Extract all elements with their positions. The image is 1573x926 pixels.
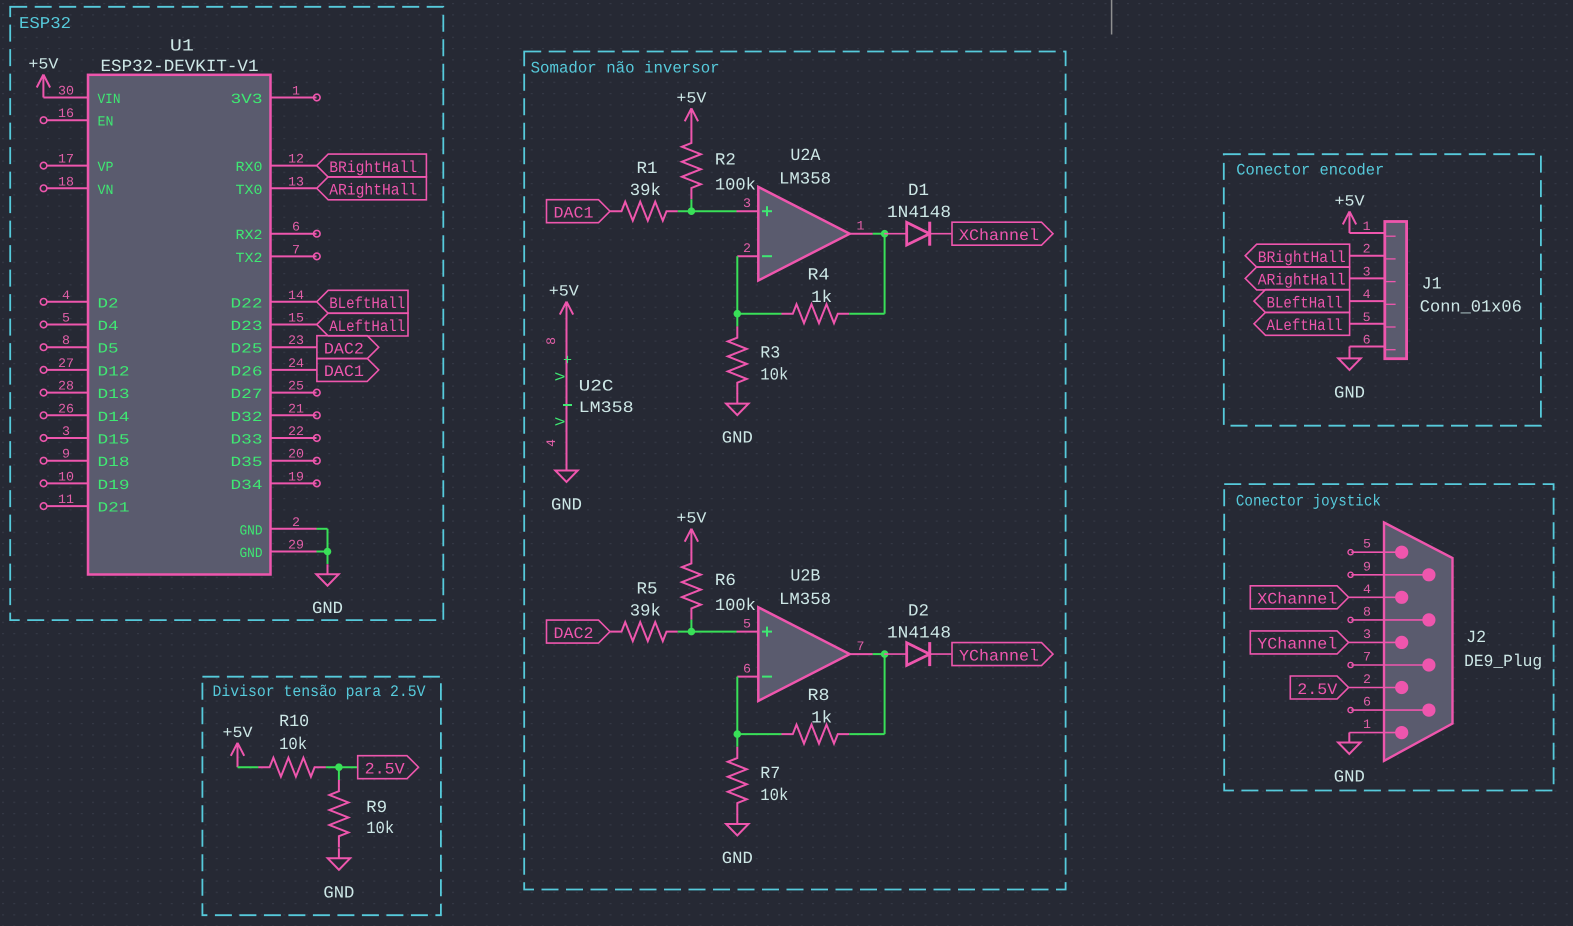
U1 right pin 7 TX2 <box>271 255 317 257</box>
wire +5V to R10 <box>238 766 259 768</box>
svg-text:D26: D26 <box>231 364 263 380</box>
svg-text:BRightHall: BRightHall <box>1258 249 1346 267</box>
svg-text:1: 1 <box>857 219 865 234</box>
svg-text:D27: D27 <box>231 387 263 403</box>
hierarchical label XChannel (J2) <box>1250 586 1348 609</box>
hierarchical label DAC2 <box>317 336 379 359</box>
op-amp pin 1 output <box>850 233 873 235</box>
wire output to diode <box>873 653 886 655</box>
wire feedback right <box>849 313 885 315</box>
ground (op-amp stage) <box>736 814 738 824</box>
svg-text:R10: R10 <box>279 713 309 732</box>
svg-text:100k: 100k <box>715 597 756 616</box>
svg-text:ALeftHall: ALeftHall <box>1267 317 1343 335</box>
hierarchical label XChannel <box>952 222 1053 245</box>
svg-text:1: 1 <box>292 84 300 99</box>
hierarchical label BRightHall <box>1245 244 1349 267</box>
junction GND <box>324 548 332 556</box>
svg-text:GND: GND <box>240 523 263 539</box>
U1 right pin 12 RX0 <box>271 165 317 167</box>
svg-text:20: 20 <box>288 447 304 462</box>
svg-text:DAC2: DAC2 <box>554 625 594 643</box>
svg-text:10k: 10k <box>760 787 788 806</box>
svg-text:D23: D23 <box>231 319 263 335</box>
svg-text:U2B: U2B <box>790 567 820 586</box>
svg-text:DAC1: DAC1 <box>554 205 594 223</box>
svg-text:3V3: 3V3 <box>231 92 263 108</box>
svg-text:100k: 100k <box>715 177 756 196</box>
op-amp pin 7 output <box>850 653 873 655</box>
hierarchical label DAC1 <box>317 358 379 381</box>
junction divider <box>335 763 343 771</box>
U1 left pin 26 D14 <box>40 412 47 419</box>
svg-text:DE9_Plug: DE9_Plug <box>1464 653 1542 672</box>
U1 left pin 17 VP <box>40 162 47 169</box>
svg-text:5: 5 <box>1363 310 1371 325</box>
U1 right pin 19 D34 <box>271 482 317 484</box>
svg-text:21: 21 <box>288 401 304 416</box>
svg-text:R2: R2 <box>715 152 736 171</box>
resistor R_in horizontal <box>610 622 678 641</box>
svg-text:1: 1 <box>1363 219 1371 234</box>
junction feedback <box>734 730 742 738</box>
junction at R divider <box>688 628 696 636</box>
J2 pin 7 <box>1351 664 1429 666</box>
svg-text:2: 2 <box>743 241 751 256</box>
svg-text:R1: R1 <box>637 160 658 179</box>
svg-text:9: 9 <box>1363 559 1371 574</box>
op-amp U2A LM358 <box>758 187 849 281</box>
svg-text:2.5V: 2.5V <box>1297 681 1337 699</box>
svg-text:D2: D2 <box>98 296 119 312</box>
svg-text:R3: R3 <box>760 345 780 364</box>
svg-text:D32: D32 <box>231 410 263 426</box>
svg-text:17: 17 <box>58 152 74 167</box>
hierarchical label DAC1 <box>547 200 611 223</box>
svg-text:10k: 10k <box>279 736 307 755</box>
svg-text:16: 16 <box>58 106 74 121</box>
J2 pin 2 <box>1349 687 1402 689</box>
J1 pin 1 <box>1385 235 1395 237</box>
svg-text:D18: D18 <box>98 455 130 471</box>
wire feedback left vertical <box>736 256 738 314</box>
svg-text:2: 2 <box>1363 242 1371 257</box>
op-amp + sign <box>762 631 772 633</box>
svg-text:D19: D19 <box>98 478 130 494</box>
svg-text:39k: 39k <box>630 602 661 621</box>
resistor R4 feedback <box>782 304 850 323</box>
svg-text:Somador não inversor: Somador não inversor <box>531 60 720 78</box>
svg-text:R5: R5 <box>637 580 658 599</box>
sheet box ESP32 <box>10 7 443 620</box>
svg-text:19: 19 <box>288 469 304 484</box>
page border edge <box>1111 0 1113 35</box>
op-amp + sign <box>762 210 772 212</box>
svg-text:BLeftHall: BLeftHall <box>329 295 405 313</box>
svg-text:24: 24 <box>288 356 304 371</box>
svg-text:RX2: RX2 <box>236 228 263 244</box>
J2 pin 9 <box>1351 574 1429 576</box>
J2 pin 1 <box>1349 732 1401 734</box>
svg-text:EN: EN <box>98 115 114 131</box>
wire feedback left vertical <box>736 677 738 735</box>
hierarchical label YChannel <box>952 643 1053 666</box>
op-amp - sign <box>762 255 772 257</box>
svg-text:3: 3 <box>62 424 70 439</box>
J1 pin 2 <box>1385 258 1395 260</box>
J1 pin 5 <box>1385 326 1395 328</box>
svg-text:39k: 39k <box>630 182 661 201</box>
resistor R6 vertical <box>682 552 701 620</box>
svg-text:5: 5 <box>743 617 751 632</box>
svg-text:U1: U1 <box>170 38 194 57</box>
svg-text:D12: D12 <box>98 364 130 380</box>
svg-text:28: 28 <box>58 379 74 394</box>
U1 left pin 11 D21 <box>40 503 47 510</box>
svg-text:ALeftHall: ALeftHall <box>329 318 405 336</box>
svg-text:+5V: +5V <box>549 283 580 301</box>
J1 pin 3 <box>1385 281 1395 283</box>
wire J1 pin 6 to ground <box>1350 346 1385 348</box>
svg-text:ESP32: ESP32 <box>19 14 71 33</box>
U1 right pin 13 TX0 <box>271 187 317 189</box>
svg-text:11: 11 <box>58 492 74 507</box>
wire Rin to op-amp + <box>678 210 737 212</box>
svg-text:5: 5 <box>62 311 70 326</box>
U1 right pin 6 RX2 <box>271 233 317 235</box>
wire +5V to J1 pin 1 <box>1350 232 1385 234</box>
svg-text:D14: D14 <box>98 410 130 426</box>
svg-text:1N4148: 1N4148 <box>887 204 951 223</box>
diode D stage <box>884 653 907 655</box>
svg-text:+5V: +5V <box>676 89 707 107</box>
svg-text:D4: D4 <box>98 319 119 335</box>
U1 right pin 29 GND <box>271 551 317 553</box>
svg-text:4: 4 <box>62 288 70 303</box>
svg-text:27: 27 <box>58 356 74 371</box>
op-amp - sign <box>762 676 772 678</box>
hierarchical label BLeftHall <box>1254 290 1350 313</box>
svg-text:8: 8 <box>544 337 559 345</box>
svg-text:VN: VN <box>98 183 114 199</box>
svg-text:22: 22 <box>288 424 304 439</box>
op-amp pin 5 + <box>737 631 759 633</box>
U1 left pin 18 VN <box>40 185 47 192</box>
svg-text:Conector encoder: Conector encoder <box>1236 162 1384 180</box>
wire feedback bottom left <box>737 313 781 315</box>
U1 right pin 24 D26 <box>271 369 317 371</box>
wire junction to R9 <box>338 767 340 780</box>
hierarchical label ALeftHall <box>317 313 408 336</box>
svg-text:D1: D1 <box>908 182 929 201</box>
J2 pin 5 <box>1351 551 1401 553</box>
wire feedback right vertical <box>884 654 886 734</box>
svg-text:VIN: VIN <box>98 92 121 108</box>
hierarchical label DAC2 <box>547 620 611 643</box>
U1 right pin 1 3V3 <box>271 97 317 99</box>
svg-text:9: 9 <box>62 447 70 462</box>
U1 right pin 22 D33 <box>271 437 317 439</box>
svg-text:J1: J1 <box>1422 276 1442 295</box>
svg-text:YChannel: YChannel <box>959 647 1039 665</box>
ground (op-amp stage) <box>736 394 738 404</box>
ground (divisor) <box>338 848 340 858</box>
svg-text:U2C: U2C <box>579 378 614 396</box>
svg-text:R7: R7 <box>760 765 780 784</box>
svg-text:ARightHall: ARightHall <box>329 182 417 200</box>
ESP32 module U1 <box>88 75 271 575</box>
svg-text:7: 7 <box>292 242 300 257</box>
wire R6 to junction <box>690 620 692 632</box>
svg-text:GND: GND <box>722 850 753 869</box>
U1 right pin 20 D35 <box>271 460 317 462</box>
svg-text:GND: GND <box>551 497 582 516</box>
J2 pin 3 <box>1349 641 1402 643</box>
svg-text:4: 4 <box>544 439 559 447</box>
connector J1 body <box>1385 222 1407 359</box>
hierarchical label BLeftHall <box>317 290 408 313</box>
svg-text:2.5V: 2.5V <box>365 761 405 779</box>
wire feedback right vertical <box>884 234 886 314</box>
U1 right pin 2 GND <box>271 528 317 530</box>
J1 pin 6 <box>1385 349 1395 351</box>
wire feedback bottom left <box>737 733 781 735</box>
svg-text:D25: D25 <box>231 342 263 358</box>
hierarchical label BRightHall <box>317 154 427 177</box>
svg-text:XChannel: XChannel <box>1257 591 1337 609</box>
U1 left pin 9 D18 <box>40 457 47 464</box>
svg-text:BRightHall: BRightHall <box>329 159 417 177</box>
hierarchical label 2.5V <box>358 756 419 779</box>
svg-text:18: 18 <box>58 174 74 189</box>
svg-text:10: 10 <box>58 469 74 484</box>
svg-text:D34: D34 <box>231 478 263 494</box>
resistor R9 <box>329 780 348 848</box>
svg-text:1k: 1k <box>811 289 832 308</box>
resistor R3 to ground <box>736 314 738 327</box>
resistor R8 feedback <box>782 725 850 744</box>
svg-text:GND: GND <box>1334 384 1365 403</box>
svg-text:10k: 10k <box>366 820 394 839</box>
svg-text:YChannel: YChannel <box>1257 636 1337 654</box>
wire GND pins to junction <box>317 528 328 530</box>
svg-text:+5V: +5V <box>676 510 707 528</box>
ground (ESP32) <box>327 564 329 574</box>
junction output <box>881 650 889 658</box>
resistor R7 to ground <box>736 734 738 747</box>
svg-text:25: 25 <box>288 379 304 394</box>
svg-text:U2A: U2A <box>790 147 821 166</box>
hierarchical label ARightHall <box>1245 267 1349 290</box>
junction output <box>881 230 889 238</box>
U1 left pin 3 D15 <box>40 435 47 442</box>
svg-text:GND: GND <box>240 546 263 562</box>
U1 right pin 25 D27 <box>271 392 317 394</box>
svg-text:Conn_01x06: Conn_01x06 <box>1420 299 1522 318</box>
U1 right pin 23 D25 <box>271 346 317 348</box>
svg-text:3: 3 <box>743 196 751 211</box>
svg-text:12: 12 <box>288 152 304 167</box>
J2 pin 4 <box>1349 596 1402 598</box>
svg-text:14: 14 <box>288 288 304 303</box>
svg-text:GND: GND <box>312 600 343 619</box>
svg-text:1: 1 <box>1363 717 1371 732</box>
svg-text:3: 3 <box>1363 264 1371 279</box>
svg-text:29: 29 <box>288 538 304 553</box>
svg-text:GND: GND <box>722 430 753 449</box>
svg-text:10k: 10k <box>760 367 788 386</box>
svg-text:30: 30 <box>58 84 74 99</box>
svg-text:26: 26 <box>58 401 74 416</box>
sheet box Conector joystick <box>1224 484 1553 790</box>
svg-text:+5V: +5V <box>223 724 254 742</box>
svg-text:DAC2: DAC2 <box>324 341 364 359</box>
svg-text:LM358: LM358 <box>779 591 831 610</box>
svg-text:23: 23 <box>288 333 304 348</box>
svg-text:7: 7 <box>1363 650 1371 665</box>
ground (J2) <box>1348 733 1350 743</box>
U2C pin 4 V- <box>563 404 572 406</box>
U1 right pin 15 D23 <box>271 324 317 326</box>
hierarchical label YChannel (J2) <box>1250 631 1348 654</box>
sheet box Somador nao inversor <box>524 52 1065 890</box>
svg-text:4: 4 <box>1363 287 1371 302</box>
svg-text:V: V <box>554 417 570 426</box>
svg-text:3: 3 <box>1363 627 1371 642</box>
resistor R10 <box>258 758 326 777</box>
J1 pin 4 <box>1385 303 1395 305</box>
svg-text:TX0: TX0 <box>236 183 263 199</box>
svg-text:7: 7 <box>857 639 865 654</box>
svg-text:D21: D21 <box>98 501 130 517</box>
ground (U2C) <box>566 461 568 471</box>
svg-text:6: 6 <box>1363 333 1371 348</box>
svg-text:RX0: RX0 <box>236 160 263 176</box>
svg-text:13: 13 <box>288 174 304 189</box>
wire Rin to op-amp + <box>678 631 737 633</box>
svg-text:D15: D15 <box>98 433 130 449</box>
svg-text:D33: D33 <box>231 433 263 449</box>
svg-text:DAC1: DAC1 <box>324 363 364 381</box>
svg-text:R8: R8 <box>808 687 830 706</box>
svg-text:D13: D13 <box>98 387 130 403</box>
U1 left pin 4 D2 <box>40 299 47 306</box>
connector J2 DE9 body <box>1384 523 1453 761</box>
svg-text:4: 4 <box>1363 582 1371 597</box>
svg-text:+5V: +5V <box>28 56 59 74</box>
svg-text:1N4148: 1N4148 <box>887 624 951 643</box>
svg-text:ARightHall: ARightHall <box>1258 272 1346 290</box>
svg-text:XChannel: XChannel <box>959 227 1039 245</box>
op-amp pin 6 - <box>737 676 758 678</box>
wire +5V to VIN <box>43 97 88 99</box>
wire R2 to junction <box>690 199 692 211</box>
U1 right pin 21 D32 <box>271 414 317 416</box>
svg-text:LM358: LM358 <box>779 171 831 190</box>
svg-text:Conector joystick: Conector joystick <box>1236 493 1381 511</box>
svg-text:GND: GND <box>323 884 354 903</box>
ground (J1) <box>1349 348 1351 358</box>
svg-text:15: 15 <box>288 311 304 326</box>
wire feedback right <box>849 733 885 735</box>
wire output to diode <box>873 233 886 235</box>
svg-text:+5V: +5V <box>1335 192 1366 210</box>
svg-text:J2: J2 <box>1466 629 1486 648</box>
svg-text:R6: R6 <box>715 572 736 591</box>
svg-text:8: 8 <box>62 333 70 348</box>
svg-text:+: + <box>563 353 572 370</box>
svg-text:6: 6 <box>743 662 751 677</box>
svg-text:2: 2 <box>1363 672 1371 687</box>
svg-text:D5: D5 <box>98 342 119 358</box>
wire R10 to junction <box>326 766 358 768</box>
svg-text:8: 8 <box>1363 604 1371 619</box>
junction feedback <box>734 310 742 318</box>
U1 left pin 28 D13 <box>40 389 47 396</box>
hierarchical label ARightHall <box>317 177 427 200</box>
hierarchical label ALeftHall <box>1254 312 1350 335</box>
svg-text:D22: D22 <box>231 296 263 312</box>
svg-text:1k: 1k <box>811 709 832 728</box>
diode D stage <box>884 233 907 235</box>
svg-text:6: 6 <box>1363 695 1371 710</box>
svg-text:R4: R4 <box>808 267 830 286</box>
svg-text:BLeftHall: BLeftHall <box>1267 294 1343 312</box>
hierarchical label 2.5V (J2) <box>1290 676 1348 699</box>
resistor R2 vertical <box>682 132 701 200</box>
U1 left pin 5 D4 <box>40 321 47 328</box>
U1 right pin 14 D22 <box>271 301 317 303</box>
svg-text:6: 6 <box>292 220 300 235</box>
sheet box Conector encoder <box>1224 154 1541 426</box>
U1 left pin 16 EN <box>40 117 47 124</box>
svg-text:V: V <box>554 372 570 381</box>
op-amp pin 2 - <box>737 255 758 257</box>
U1 left pin 8 D5 <box>40 344 47 351</box>
svg-text:ESP32-DEVKIT-V1: ESP32-DEVKIT-V1 <box>101 58 259 77</box>
U1 left pin 27 D12 <box>40 367 47 374</box>
sheet box Divisor tensao <box>202 677 441 916</box>
svg-text:Divisor tensão para 2.5V: Divisor tensão para 2.5V <box>213 683 426 701</box>
wire J2 pin 1 to ground <box>1348 733 1350 735</box>
svg-text:TX2: TX2 <box>236 251 263 267</box>
junction at R divider <box>688 207 696 215</box>
svg-text:R9: R9 <box>366 799 387 818</box>
J2 pin 8 <box>1351 619 1429 621</box>
U1 left pin 10 D19 <box>40 480 47 487</box>
svg-text:D2: D2 <box>908 602 929 621</box>
svg-text:VP: VP <box>98 160 114 176</box>
op-amp pin 3 + <box>737 210 759 212</box>
op-amp U2B LM358 <box>758 607 849 701</box>
svg-text:5: 5 <box>1363 537 1371 552</box>
svg-text:2: 2 <box>292 515 300 530</box>
J2 pin 6 <box>1351 709 1429 711</box>
resistor R_in horizontal <box>610 202 678 221</box>
svg-text:GND: GND <box>1334 769 1365 788</box>
svg-text:D35: D35 <box>231 455 263 471</box>
svg-text:LM358: LM358 <box>579 399 634 417</box>
